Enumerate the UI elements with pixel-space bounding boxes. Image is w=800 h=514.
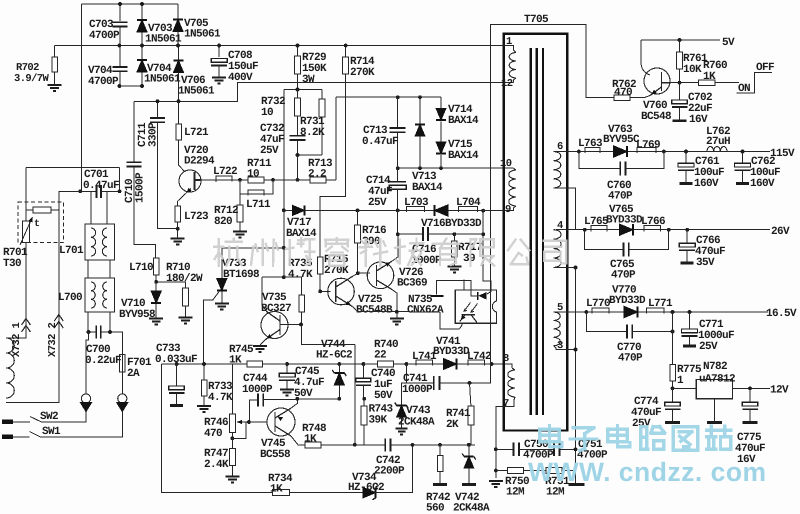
- wire R743 bottom leg: [363, 425, 365, 445]
- svg-text:BC548B: BC548B: [356, 305, 393, 317]
- wire V726 emitter up: [392, 234, 399, 261]
- resistor R713: [310, 177, 326, 183]
- wire V706 bottom leg: [178, 73, 180, 102]
- wire R731 top leg: [321, 90, 323, 100]
- resistor R734: [273, 490, 290, 496]
- svg-text:L711: L711: [246, 199, 271, 211]
- diode V715: [436, 142, 446, 154]
- svg-text:BYD33D: BYD33D: [445, 218, 482, 230]
- svg-text:1K: 1K: [270, 484, 283, 496]
- ground pin7: [489, 481, 503, 487]
- wire pin6 top: [556, 151, 579, 153]
- wire C702 stem: [679, 108, 681, 120]
- wire F701 top leg: [110, 332, 122, 355]
- transformer L700 box: [85, 278, 115, 312]
- wire bottom V734-corner: [376, 445, 413, 493]
- wire bottom R734-V734: [290, 492, 364, 494]
- svg-text:1K: 1K: [703, 71, 716, 83]
- wire V720 emitter to L723: [177, 201, 179, 206]
- junction V735 base R735: [299, 323, 303, 327]
- watermark char ji: [395, 239, 423, 265]
- svg-text:BYD33D: BYD33D: [433, 346, 470, 358]
- watermark blue char dian2: [608, 426, 630, 447]
- junction R715 V725 base: [318, 290, 322, 294]
- wire C716 line: [398, 233, 423, 235]
- wire C750 line left: [496, 448, 514, 450]
- junction R729 bottom: [296, 88, 300, 92]
- svg-text:HZ-6C2: HZ-6C2: [348, 482, 384, 494]
- wire opto emitter stub: [460, 323, 463, 329]
- junction wiper C744 base: [247, 420, 251, 424]
- wire long vertical x283.8: [283, 90, 285, 278]
- resistor R731: [319, 99, 325, 117]
- junction R716 V725c V726b: [356, 271, 360, 275]
- wire R747 bottom leg: [231, 466, 233, 476]
- wire C702 top leg: [679, 83, 681, 100]
- wire left plug stem up: [86, 332, 89, 394]
- capacitor C733: [169, 386, 185, 390]
- switch SW1 terminal: [2, 435, 13, 440]
- wire 16.5V rail: [586, 311, 768, 313]
- wire R733 bottom leg: [203, 396, 205, 406]
- junction y168 V715: [439, 166, 443, 170]
- svg-text:OFF: OFF: [756, 62, 774, 74]
- watermark blue char tu4: [673, 427, 697, 451]
- wire V735 emitter to ground: [260, 340, 266, 346]
- svg-text:560: 560: [426, 503, 444, 514]
- wire R742 bottom leg: [439, 472, 441, 484]
- wire R748 right: [321, 444, 385, 446]
- inductor T30 winding: [6, 338, 14, 398]
- svg-text:1: 1: [506, 36, 512, 48]
- transistor V726: [367, 262, 394, 289]
- svg-text:L769: L769: [636, 140, 660, 152]
- junction y101 C711: [156, 99, 160, 103]
- junction rail L711 right: [271, 178, 275, 182]
- wire cold rail vertical: [575, 268, 577, 484]
- wire R702 top leg: [54, 46, 56, 58]
- capacitor C751: [554, 443, 560, 457]
- wire V706 top leg: [178, 46, 180, 61]
- svg-text:X732 1: X732 1: [11, 322, 23, 357]
- watermark char xian: [471, 239, 495, 265]
- svg-text:7: 7: [503, 398, 509, 410]
- wire C766 stem: [686, 251, 688, 263]
- wire to R710: [156, 282, 185, 288]
- transistor V720 emitter: [178, 189, 191, 202]
- wire C713 top leg: [397, 97, 399, 127]
- wire R713 right leg up: [335, 97, 337, 180]
- svg-text:V743: V743: [406, 405, 431, 417]
- inductor L700 left coil: [91, 282, 95, 308]
- wire R701 right leg: [51, 209, 59, 211]
- terminal stub N735: [431, 295, 444, 297]
- ground under V710: [149, 319, 163, 325]
- diode V706: [173, 61, 183, 73]
- wire pin10 tail: [514, 168, 517, 170]
- watermark char si: [544, 241, 567, 264]
- wire V725 base: [320, 290, 330, 292]
- junction 12V C775: [748, 386, 752, 390]
- winding T705 10-9: [509, 170, 516, 206]
- resistor R761: [677, 52, 683, 69]
- switch SW1: [13, 432, 41, 438]
- fuse F701: [120, 355, 126, 373]
- wire R762 line: [600, 97, 614, 99]
- wire R712 bottom leg: [239, 222, 241, 231]
- wire R716 top leg: [357, 210, 359, 225]
- svg-text:1500P: 1500P: [135, 172, 147, 203]
- capacitor C761: [678, 163, 694, 167]
- wire rail R711 left: [240, 179, 248, 181]
- svg-text:26V: 26V: [771, 226, 790, 238]
- wire 26V rail: [585, 229, 770, 231]
- optocoupler phototransistor: [460, 315, 477, 323]
- wire C708 top leg: [218, 46, 220, 58]
- wire x354.8 drop to R748 rail: [354, 344, 356, 445]
- wire R715 bottom leg: [319, 274, 321, 291]
- wire pin4 top: [556, 229, 585, 231]
- transformer L701 box: [85, 224, 115, 260]
- wire L711 parallel branch: [240, 180, 273, 194]
- wire V743 bottom leg: [401, 417, 403, 428]
- ground under R733: [197, 406, 211, 412]
- inductor L700 right coil: [103, 282, 107, 308]
- wire C761 top leg: [685, 152, 687, 164]
- svg-text:4700P: 4700P: [88, 76, 119, 88]
- junction C732 R731: [296, 153, 300, 157]
- wire rail y363 right part: [232, 363, 246, 365]
- junction 5V R761: [678, 38, 682, 42]
- svg-text:L766: L766: [641, 216, 665, 228]
- svg-text:BC369: BC369: [397, 278, 427, 290]
- zener V734: [363, 487, 376, 498]
- wire F701 to plug: [121, 372, 123, 394]
- junction C744 wire V744: [337, 397, 341, 401]
- wire pin4 bottom: [554, 267, 576, 269]
- svg-text:270K: 270K: [350, 67, 375, 79]
- wire V716 to L704: [448, 210, 459, 212]
- svg-text:X732 2: X732 2: [47, 322, 59, 357]
- svg-text:2A: 2A: [127, 368, 140, 380]
- wire R716 bottom leg: [357, 243, 359, 273]
- watermark char ke: [360, 239, 387, 265]
- watermark char jiang: [286, 238, 314, 265]
- resistor R748: [305, 442, 321, 448]
- ground bar C775: [743, 421, 758, 424]
- resistor R740: [377, 361, 393, 367]
- wire reg output: [733, 387, 771, 389]
- svg-text:SW1: SW1: [42, 426, 61, 438]
- ground bar C733: [170, 404, 183, 407]
- svg-text:820: 820: [214, 216, 232, 228]
- zener V742: [464, 457, 474, 469]
- inductor L769: [637, 148, 656, 154]
- switch ON/OFF: [736, 73, 772, 93]
- wire C745 stem: [286, 381, 288, 389]
- watermark blue char zi1: [570, 428, 597, 451]
- wire rail445: [413, 444, 476, 446]
- diode V704: [137, 60, 147, 72]
- junction pin4 bottom cold rail: [574, 266, 578, 270]
- wire pin3: [554, 346, 576, 350]
- wire reg gnd pin: [714, 399, 716, 422]
- svg-text:2.4K: 2.4K: [204, 459, 229, 471]
- wire R761 bottom leg: [679, 69, 681, 83]
- resistor R735: [299, 295, 305, 312]
- wire V745 collector to R748: [291, 436, 305, 445]
- wire R710 ground stem: [185, 306, 187, 317]
- optocoupler N735 box: [455, 290, 496, 323]
- wire pin12 tail: [514, 78, 517, 82]
- wire R742 top leg: [439, 445, 441, 456]
- wire V704 bottom leg: [141, 72, 143, 86]
- junction C744 wire V745e: [295, 397, 299, 401]
- connector arrows X732-2: [54, 315, 63, 329]
- wire x119.5 drop: [119, 167, 121, 192]
- wire V703 bottom leg: [141, 32, 143, 46]
- svg-text:27uH: 27uH: [706, 136, 730, 148]
- junction 26V C766: [685, 228, 689, 232]
- capacitor C774: [665, 402, 681, 406]
- wire L701 right top leg: [106, 191, 108, 224]
- wire R714 bottom leg: [320, 74, 346, 291]
- svg-text:4.7K: 4.7K: [288, 269, 313, 281]
- switch SW2 terminal: [2, 420, 13, 425]
- wire L721 top leg: [178, 101, 180, 124]
- wire base rail: [216, 180, 240, 182]
- svg-text:3W: 3W: [302, 74, 315, 86]
- junction y168 V713: [418, 166, 422, 170]
- resistor R701: [33, 207, 51, 213]
- wire C733 top leg: [176, 364, 178, 386]
- transistor V745: [267, 408, 295, 436]
- svg-text:1K: 1K: [229, 355, 242, 367]
- wire C711 top leg: [157, 101, 159, 117]
- junction C701 right node: [118, 189, 122, 193]
- wire V713 branch: [419, 97, 421, 124]
- resistor R733: [201, 380, 207, 396]
- watermark char you: [433, 239, 460, 265]
- watermark blue char lu3: [641, 427, 665, 450]
- svg-text:uA7812: uA7812: [699, 374, 735, 386]
- svg-text:ON: ON: [738, 83, 750, 95]
- wire 115V rail: [579, 151, 770, 153]
- svg-text:BAX14: BAX14: [448, 150, 479, 162]
- wire R729 top leg: [297, 46, 299, 57]
- svg-text:10K: 10K: [683, 64, 702, 76]
- wire C701 right: [101, 190, 120, 192]
- junction rail C733: [175, 362, 179, 366]
- capacitor C771: [682, 329, 698, 333]
- wire X732-1 drop: [25, 167, 27, 220]
- junction R761 V760 C702 R760: [678, 81, 682, 85]
- svg-text:470: 470: [614, 87, 632, 99]
- capacitor C710: [126, 162, 141, 166]
- svg-text:L721: L721: [184, 127, 209, 139]
- junction pin7 C750: [494, 447, 498, 451]
- junction pin7 R750: [494, 469, 498, 473]
- capacitor C742: [385, 438, 390, 451]
- junction bus R729: [296, 44, 300, 48]
- junction C716 wire riser: [481, 232, 485, 236]
- wire L703 to V716: [407, 210, 435, 212]
- svg-text:10: 10: [261, 107, 273, 119]
- wire L723 bottom leg: [177, 222, 179, 229]
- wire V713 bottom leg: [419, 136, 421, 168]
- transistor V735: [261, 312, 288, 339]
- ground bar V742: [462, 483, 476, 486]
- resistor R716: [355, 225, 361, 243]
- wire R732 top leg: [297, 90, 299, 99]
- wire plug left to SW2: [42, 412, 87, 422]
- resistor R750: [508, 468, 524, 474]
- wire R717 top leg: [453, 234, 455, 241]
- winding T705 6: [554, 152, 561, 189]
- svg-text:25V: 25V: [699, 341, 718, 353]
- wire rail R745-C745: [262, 363, 287, 365]
- diode V714: [436, 109, 446, 121]
- wire C760 loop: [579, 152, 621, 169]
- wire C700 right: [101, 331, 110, 333]
- svg-text:2.2: 2.2: [308, 169, 326, 181]
- wire rail R713 left: [273, 179, 310, 181]
- inductor L770: [592, 308, 609, 314]
- wire 5V rail: [641, 39, 720, 41]
- wire wiper node to base: [246, 421, 267, 423]
- svg-text:L770: L770: [586, 298, 610, 310]
- wire R733 top leg: [203, 364, 205, 380]
- wire mid bus y86: [119, 85, 142, 87]
- wire C744 wire right: [268, 398, 339, 401]
- capacitor C741: [434, 376, 440, 390]
- wire V760 collector curve: [641, 62, 650, 75]
- wire C740 top leg: [362, 364, 364, 378]
- transistor V720 internals: [195, 172, 202, 190]
- svg-text:BAX14: BAX14: [448, 115, 479, 127]
- wire L721 to V720 collector: [179, 140, 186, 172]
- junction rail C740: [362, 362, 366, 366]
- watermark blue char dian0: [540, 426, 562, 447]
- svg-text:L763: L763: [578, 138, 603, 150]
- dashed box R701/T30 degauss block: [18, 202, 64, 242]
- switch SW2: [13, 417, 42, 423]
- inductor L765: [591, 226, 607, 232]
- wire V714 to V715: [440, 122, 442, 143]
- junction 16.5V left: [584, 310, 588, 314]
- svg-text:35V: 35V: [696, 257, 715, 269]
- wire C770 loop: [586, 312, 627, 332]
- inductor L762: [707, 146, 727, 151]
- ground under C708: [212, 78, 226, 84]
- wire V733 cathode stem: [221, 292, 223, 304]
- junction 115V C761: [684, 150, 688, 154]
- junction C716 wire R717: [453, 232, 457, 236]
- capacitor C744: [258, 393, 263, 406]
- wire pin1: [400, 46, 516, 53]
- capacitor C760: [620, 162, 625, 176]
- plug P1 (left): [81, 394, 90, 403]
- wire link y155: [298, 154, 323, 156]
- svg-text:8.2K: 8.2K: [300, 127, 325, 139]
- wire C703 top leg: [119, 4, 121, 21]
- ground bar C774: [665, 421, 680, 424]
- svg-text:8: 8: [503, 353, 509, 365]
- wire R746 bottom leg: [231, 432, 233, 438]
- watermark char rui: [325, 238, 348, 266]
- wire V725 collector up: [352, 273, 358, 276]
- svg-text:WWW. cndzz. com: WWW. cndzz. com: [528, 457, 767, 487]
- potentiometer R746 wiper arrow: [237, 421, 246, 423]
- wire C703 bottom leg: [119, 28, 121, 46]
- diode V741: [444, 359, 457, 370]
- wire R775 bottom leg: [672, 381, 674, 388]
- junction bus R714: [344, 44, 348, 48]
- transistor V735 internals: [266, 312, 281, 340]
- wire C710 bottom leg: [134, 167, 156, 258]
- wire R741 top leg: [470, 383, 471, 406]
- wire V726 emitter top join: [397, 210, 399, 234]
- capacitor C750: [514, 443, 520, 457]
- inductor L766: [644, 226, 661, 232]
- wire R750 left: [496, 470, 508, 472]
- resistor R710: [183, 288, 189, 306]
- wire C774 top leg: [672, 388, 674, 402]
- svg-text:12M: 12M: [506, 487, 525, 499]
- wire V720 base to L722: [202, 179, 217, 181]
- zener V744: [334, 373, 344, 385]
- wire rail R740-L741: [393, 363, 406, 365]
- wire C740 to R743 node: [362, 398, 365, 400]
- diode V716: [435, 205, 449, 216]
- svg-text:BYV958: BYV958: [119, 309, 156, 321]
- inductor L763: [585, 148, 600, 154]
- wire V717 anode: [284, 209, 292, 211]
- svg-text:160V: 160V: [750, 178, 775, 190]
- diode V763: [614, 146, 628, 157]
- resistor R742: [437, 456, 443, 472]
- transistor V725: [328, 278, 355, 305]
- inductor L741: [416, 360, 432, 366]
- wire C762 stem: [742, 171, 744, 183]
- junction pin6 dot: [577, 150, 581, 154]
- svg-text:1000P: 1000P: [402, 384, 433, 396]
- ground under R702: [48, 85, 62, 91]
- capacitor C770: [627, 325, 632, 339]
- wire pin6 bottom link: [554, 188, 576, 229]
- resistor R745: [247, 361, 262, 367]
- wire C744 plates join: [263, 399, 268, 401]
- junction 26V left: [583, 228, 587, 232]
- junction C700 right: [108, 330, 112, 334]
- svg-text:12V: 12V: [770, 385, 789, 397]
- wire L700 right bottom leg: [109, 312, 111, 332]
- junction x283.8 V733 wire: [282, 246, 286, 250]
- junction 16.5V C770 riser R775: [671, 310, 675, 314]
- transformer T705 core box: [504, 34, 568, 431]
- inductor L701 right coil: [102, 228, 107, 256]
- wire left vertical from top bus to C701 node: [80, 4, 82, 191]
- capacitor C708: [211, 59, 227, 63]
- svg-text:3.9/7W: 3.9/7W: [14, 73, 50, 85]
- junction y97 V713: [418, 95, 422, 99]
- diode V710: [151, 291, 161, 303]
- svg-text:L723: L723: [184, 211, 209, 223]
- wire R760 right: [715, 82, 739, 84]
- ground mid control: [390, 319, 404, 325]
- svg-text:BAX14: BAX14: [412, 182, 443, 194]
- wire C771 top leg: [689, 312, 691, 329]
